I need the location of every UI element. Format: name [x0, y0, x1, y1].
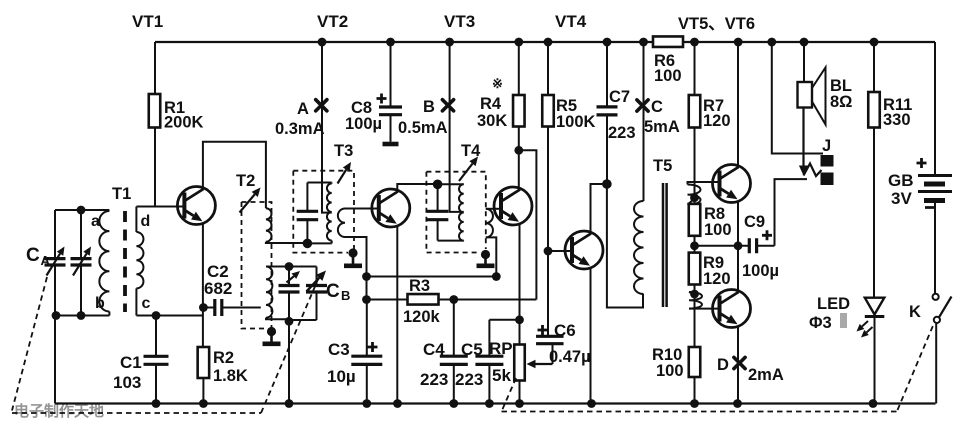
- capacitor C8: [377, 42, 403, 142]
- wire battery to switch: [934, 203, 936, 294]
- svg-text:RP: RP: [489, 339, 513, 358]
- node speaker rail junction: [800, 38, 809, 47]
- svg-text:C: C: [326, 281, 340, 302]
- test point C mark: [637, 100, 648, 111]
- node c junction: [152, 311, 161, 320]
- wire speaker to jack: [799, 108, 808, 176]
- svg-text:223: 223: [455, 370, 483, 389]
- svg-text:C5: C5: [461, 340, 483, 359]
- transformer T3 secondary: [338, 209, 345, 238]
- test point B mark: [442, 100, 453, 111]
- resistor R9: [689, 246, 701, 294]
- node VT4 emitter rail junction: [587, 399, 596, 408]
- svg-text:0.3mA: 0.3mA: [275, 120, 325, 138]
- mechanical link bottom left: [12, 412, 261, 414]
- wire C9 to jack: [775, 179, 808, 246]
- transistor VT1: [177, 187, 215, 225]
- svg-text:B: B: [423, 98, 435, 116]
- label C5: [455, 340, 483, 389]
- svg-text:※: ※: [492, 76, 503, 91]
- transistor VT2: [372, 189, 410, 227]
- svg-text:C: C: [26, 245, 40, 266]
- ground C8: [383, 142, 399, 144]
- label T1: [112, 185, 131, 203]
- wire T2 secondary top to CB: [266, 266, 289, 268]
- node C9 junction: [734, 241, 743, 250]
- svg-text:C4: C4: [423, 340, 445, 359]
- switch K: [933, 294, 952, 323]
- svg-text:C6: C6: [554, 321, 576, 340]
- svg-text:30K: 30K: [477, 112, 507, 130]
- resistor R4: [513, 42, 525, 188]
- svg-text:K: K: [909, 303, 921, 321]
- label CB: [326, 281, 350, 303]
- wire R3 to VT3 collector: [519, 150, 537, 299]
- resistor R10: [689, 294, 701, 404]
- transformer T5 secondary top half: [688, 182, 720, 205]
- capacitor C2: [203, 299, 260, 316]
- label T3: [334, 142, 353, 160]
- label R11: [883, 96, 912, 129]
- label VT3: [444, 12, 475, 31]
- svg-text:100: 100: [704, 221, 732, 239]
- wire VT4 collector: [591, 184, 607, 232]
- svg-text:B: B: [341, 288, 350, 303]
- node CA top junction: [77, 206, 86, 215]
- transistor VT3: [494, 187, 532, 225]
- node R9 bottom junction: [690, 290, 699, 299]
- label R1: [164, 99, 204, 132]
- test point A mark: [316, 100, 327, 111]
- svg-text:LED: LED: [817, 295, 850, 313]
- label VT2: [317, 12, 348, 31]
- transformer T2 shield box: [242, 202, 272, 329]
- wire bottom ground rail: [55, 402, 936, 404]
- node C7 rail junction: [603, 38, 612, 47]
- svg-text:223: 223: [608, 124, 636, 142]
- wire top supply rail: [155, 41, 935, 43]
- svg-text:R3: R3: [409, 277, 430, 295]
- node jack rail junction: [767, 38, 776, 47]
- svg-text:100: 100: [656, 362, 684, 380]
- wire VT2 emitter: [396, 226, 398, 404]
- jack J contacts: [821, 155, 834, 185]
- label B: [398, 98, 448, 137]
- wire VT1 emitter: [202, 223, 205, 404]
- transformer T2 secondary: [266, 267, 272, 318]
- svg-text:5mA: 5mA: [644, 118, 680, 136]
- wire VT4 base: [548, 250, 572, 252]
- wire CB top: [289, 266, 317, 268]
- svg-text:120: 120: [703, 112, 731, 130]
- node T4 tank top junction: [433, 180, 443, 190]
- node VT6 emitter rail junction: [733, 399, 742, 408]
- svg-text:VT1: VT1: [132, 12, 163, 31]
- resistor R2: [198, 347, 210, 378]
- svg-text:A: A: [41, 253, 51, 268]
- node VT5 collector rail junction: [734, 38, 743, 47]
- label CA: [26, 245, 51, 268]
- label R8: [704, 205, 732, 239]
- wire VT3 emitter to C5: [489, 319, 519, 321]
- node R11 rail junction: [870, 38, 879, 47]
- label VT5 VT6: [678, 15, 755, 33]
- svg-text:103: 103: [113, 373, 141, 392]
- transformer T3 shield box: [293, 171, 354, 253]
- node R7 rail junction: [690, 38, 699, 47]
- node VT3 emitter junction: [515, 315, 524, 324]
- label R7: [703, 97, 731, 130]
- svg-text:5k: 5k: [492, 366, 511, 385]
- wire T1 secondary bottom to node c: [136, 315, 203, 317]
- label C7: [608, 88, 636, 142]
- wire CB to ground rail: [288, 321, 290, 403]
- resistor R11: [868, 42, 880, 298]
- resistor R8: [689, 198, 701, 246]
- label C6: [549, 321, 591, 366]
- svg-text:1.8K: 1.8K: [213, 367, 248, 385]
- svg-text:T2: T2: [236, 172, 255, 190]
- svg-text:330: 330: [883, 111, 911, 129]
- wire T4 secondary bottom: [486, 237, 497, 276]
- wire rail to jack sleeve: [772, 42, 823, 154]
- svg-text:C1: C1: [120, 353, 142, 372]
- variable capacitor CA section 2: [71, 210, 92, 316]
- node VT4 base junction: [544, 247, 553, 256]
- svg-text:120: 120: [703, 270, 731, 288]
- capacitor C1: [144, 316, 169, 404]
- node AGC right junction: [492, 272, 501, 281]
- svg-text:VT3: VT3: [444, 12, 475, 31]
- capacitor inside T4: [427, 184, 449, 240]
- label J: [822, 137, 831, 155]
- label RP: [489, 339, 513, 385]
- node C5 rail junction: [485, 399, 494, 408]
- resistor R3: [367, 294, 537, 305]
- capacitor C6: [536, 251, 564, 344]
- label c: [142, 295, 151, 312]
- battery GB: [917, 158, 953, 208]
- node A rail junction: [318, 38, 327, 47]
- label C2: [204, 262, 232, 298]
- wire VT6 emitter: [737, 327, 739, 404]
- svg-text:2mA: 2mA: [748, 366, 784, 384]
- label BL: [830, 77, 852, 111]
- jack J spring contact: [804, 164, 822, 177]
- wire CB bottom: [289, 319, 317, 321]
- svg-text:VT2: VT2: [317, 12, 348, 31]
- node C7 bottom junction: [602, 179, 612, 189]
- wire VT5 emitter VT6 collector: [737, 202, 739, 291]
- wire test point B: [450, 42, 464, 212]
- svg-text:100: 100: [654, 67, 682, 85]
- wire T4 tank top: [438, 183, 464, 185]
- transformer T4 primary: [459, 184, 464, 240]
- wire CA top: [55, 209, 109, 211]
- ground T3 shield: [344, 248, 362, 265]
- label R6: [654, 52, 682, 85]
- svg-text:T1: T1: [112, 185, 131, 203]
- svg-text:223: 223: [420, 370, 448, 389]
- wire T3 secondary bottom: [345, 237, 367, 277]
- wire T3 secondary top to VT2 base: [345, 208, 379, 210]
- wire VT5 collector: [737, 42, 739, 166]
- node VT2 emitter rail junction: [393, 399, 402, 408]
- label LED: [809, 295, 850, 332]
- label A: [275, 100, 325, 138]
- node R4 bottom junction: [514, 146, 523, 155]
- wire VT4 emitter: [590, 268, 592, 404]
- node RP rail junction: [515, 399, 524, 408]
- transformer T5 primary: [634, 201, 644, 294]
- capacitor C7: [597, 42, 618, 184]
- svg-text:T3: T3: [334, 142, 353, 160]
- svg-text:d: d: [141, 213, 151, 230]
- svg-text:3V: 3V: [891, 189, 912, 208]
- node C rail junction: [639, 38, 648, 47]
- label T4: [461, 142, 481, 160]
- label C3: [327, 340, 356, 386]
- wire CA bottom: [55, 315, 109, 317]
- wire speaker top: [803, 42, 805, 82]
- wire C7 to T5 primary: [607, 184, 643, 308]
- label a: [91, 213, 100, 230]
- variable capacitor CB section 1: [279, 267, 301, 322]
- label R10: [652, 346, 684, 380]
- wire battery positive: [934, 42, 936, 174]
- svg-text:C3: C3: [328, 340, 350, 359]
- svg-text:J: J: [822, 137, 831, 155]
- capacitor C3: [351, 300, 382, 404]
- wire T2 primary bottom to T3: [266, 242, 308, 243]
- svg-text:100µ: 100µ: [742, 262, 779, 280]
- svg-text:10µ: 10µ: [327, 367, 356, 386]
- transformer T3 primary: [327, 183, 332, 244]
- label GB: [888, 171, 914, 208]
- mechanical link CB: [261, 278, 319, 414]
- label b: [95, 295, 105, 312]
- wire AGC to R3: [366, 277, 368, 300]
- resistor R6: [653, 36, 683, 47]
- mechanical link CA: [12, 277, 47, 411]
- label R4: [477, 76, 507, 130]
- svg-text:0.5mA: 0.5mA: [398, 119, 448, 137]
- svg-text:100µ: 100µ: [345, 115, 382, 133]
- LED: [857, 298, 885, 404]
- node C8 rail junction: [386, 38, 395, 47]
- capacitor C9: [695, 230, 775, 253]
- node C4 rail junction: [449, 399, 458, 408]
- label T2: [236, 172, 255, 190]
- capacitor inside T3: [297, 183, 319, 244]
- transformer T1 primary a-b: [99, 211, 109, 316]
- node R3 right junction: [449, 295, 458, 304]
- node AGC left junction: [362, 272, 371, 281]
- label d: [141, 213, 151, 230]
- wire VT1 base: [136, 206, 184, 208]
- transistor VT5: [713, 165, 751, 203]
- svg-text:D: D: [717, 356, 729, 374]
- svg-text:C7: C7: [609, 88, 630, 106]
- capacitor C4: [440, 300, 468, 404]
- label R2: [213, 349, 248, 385]
- svg-text:GB: GB: [888, 171, 914, 190]
- transistor VT4: [565, 231, 603, 269]
- transformer T2 primary: [266, 208, 272, 242]
- svg-text:682: 682: [204, 279, 232, 298]
- svg-text:R4: R4: [480, 95, 502, 113]
- node C3 rail junction: [362, 399, 371, 408]
- transformer T3 trimmer arrow: [338, 162, 352, 184]
- wire T2 secondary bottom to CB: [266, 318, 289, 320]
- svg-text:T5: T5: [653, 157, 672, 175]
- label R3: [403, 277, 441, 326]
- label C1: [113, 353, 142, 392]
- capacitor C5: [475, 320, 503, 404]
- svg-text:8Ω: 8Ω: [830, 93, 852, 111]
- ground T4 shield: [477, 250, 495, 266]
- node LED rail junction: [869, 399, 878, 408]
- wire test point C: [643, 42, 645, 201]
- wire T4 secondary top to VT3 base: [486, 208, 501, 210]
- transformer T2 trimmer arrow: [240, 188, 261, 213]
- svg-text:0.47µ: 0.47µ: [549, 348, 591, 366]
- mechanical link switch: [898, 325, 934, 411]
- transformer T1 core: [123, 211, 127, 312]
- mechanical link RP to switch: [502, 378, 517, 412]
- wire VT3 emitter: [519, 224, 521, 345]
- node VT1 emitter C2 junction: [199, 303, 208, 312]
- wire T3 tank bottom: [307, 242, 331, 244]
- label C9: [742, 213, 779, 280]
- svg-text:120k: 120k: [403, 308, 441, 326]
- node C1 ground rail junction: [152, 399, 161, 408]
- svg-text:200K: 200K: [164, 114, 204, 132]
- transformer T5 secondary bottom half: [689, 292, 719, 309]
- wire test point A: [322, 42, 332, 213]
- resistor R7: [689, 42, 701, 198]
- test point D mark: [734, 357, 745, 368]
- svg-text:Φ3: Φ3: [809, 314, 832, 332]
- node R2 ground rail junction: [199, 399, 208, 408]
- label T5: [653, 157, 672, 175]
- node R4 rail junction: [514, 38, 523, 47]
- transformer T4 shield box: [426, 172, 485, 253]
- node CA bottom junctions: [52, 311, 86, 320]
- wire T4 tank bottom: [438, 240, 464, 242]
- wire AGC bus: [367, 276, 497, 278]
- transformer T4 trimmer arrow: [459, 157, 478, 182]
- watermark: [14, 402, 104, 420]
- speaker BL: [798, 68, 826, 125]
- node R8 bottom junction: [690, 241, 699, 250]
- transformer T4 secondary: [486, 209, 493, 238]
- label C8: [345, 99, 382, 133]
- node B rail junction: [445, 38, 454, 47]
- node CB top junction: [285, 262, 294, 271]
- ground T2 shield: [263, 327, 281, 344]
- node R3 left junction: [362, 295, 371, 304]
- resistor R1: [149, 42, 161, 207]
- variable capacitor CB section 2: [306, 267, 327, 321]
- variable capacitor CA section 1: [45, 210, 66, 404]
- node T3 tank bottom junction: [303, 239, 313, 249]
- label C4: [420, 340, 448, 389]
- transistor VT6: [713, 290, 751, 328]
- svg-text:C9: C9: [744, 213, 765, 231]
- label D: [717, 356, 784, 384]
- transformer T1 secondary d-c: [136, 207, 143, 316]
- svg-text:A: A: [297, 100, 309, 118]
- wire VT2 collector: [397, 184, 437, 190]
- resistor R5: [542, 42, 554, 251]
- node VT5 base node junction: [690, 193, 699, 202]
- transformer T5 core: [663, 183, 667, 307]
- svg-text:b: b: [95, 295, 105, 312]
- svg-text:R2: R2: [213, 349, 234, 367]
- label R5: [556, 97, 596, 131]
- svg-text:VT5、VT6: VT5、VT6: [678, 15, 755, 33]
- svg-text:VT4: VT4: [555, 12, 587, 31]
- svg-text:T4: T4: [461, 142, 481, 160]
- label C: [644, 98, 680, 136]
- potentiometer RP: [514, 344, 552, 404]
- label VT4: [555, 12, 587, 31]
- svg-text:a: a: [91, 213, 100, 230]
- mechanical link bottom right: [502, 411, 898, 413]
- label K: [909, 303, 921, 321]
- node CB bottom junction: [285, 317, 294, 326]
- svg-text:c: c: [142, 295, 151, 312]
- node CB ground rail junction: [285, 399, 294, 408]
- label R9: [703, 254, 731, 288]
- wire T3 tank top: [307, 182, 331, 184]
- node R5 rail junction: [544, 38, 553, 47]
- svg-text:100K: 100K: [556, 113, 596, 131]
- svg-text:电子制作天地: 电子制作天地: [14, 402, 104, 420]
- wire switch to ground rail: [935, 323, 937, 404]
- wire VT1 collector: [203, 142, 266, 209]
- label VT1: [132, 12, 163, 31]
- node R10 rail junction: [690, 399, 699, 408]
- svg-text:C: C: [651, 98, 663, 116]
